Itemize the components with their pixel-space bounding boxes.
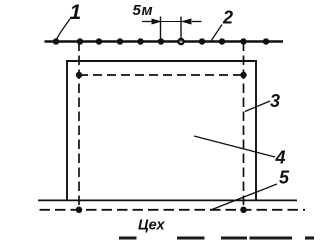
building outline (workshop walls) [67, 61, 256, 200]
wire: overhead line (bus) [45, 40, 284, 42]
svg-text:1: 1 [70, 1, 82, 24]
svg-text:3: 3 [270, 91, 280, 111]
wire: ground loop top dashed conductor [79, 74, 244, 76]
dimension: left arrow pointing right [142, 19, 160, 24]
dimension: right arrow pointing left [183, 19, 202, 24]
svg-text:5м: 5м [133, 2, 153, 19]
leader for label 1 [56, 19, 70, 40]
dimension: extension tick left [160, 17, 162, 42]
wire: buried ground dashed line [40, 209, 306, 211]
leader for label 3 [245, 101, 270, 112]
svg-text:4: 4 [275, 148, 286, 168]
wire: ground loop left dashed down conductor [78, 42, 80, 210]
svg-text:2: 2 [222, 7, 233, 27]
wire: ground surface solid line [38, 199, 297, 201]
wire: ground loop right dashed down conductor [243, 42, 245, 210]
dimension: extension tick right [180, 17, 182, 42]
leader for label 4 [194, 136, 275, 157]
svg-text:5: 5 [279, 168, 290, 188]
node: ground loop corner dots [76, 72, 247, 213]
svg-text:Цех: Цех [138, 218, 165, 234]
dimension: line between ticks [161, 21, 182, 23]
node: junction dots on overhead line [53, 38, 270, 45]
leader for label 2 [211, 25, 222, 42]
node: open (hollow) junction dot [178, 39, 183, 44]
leader for label 5 [212, 184, 277, 210]
artifact: cut-off print fragments at bottom [119, 236, 314, 239]
